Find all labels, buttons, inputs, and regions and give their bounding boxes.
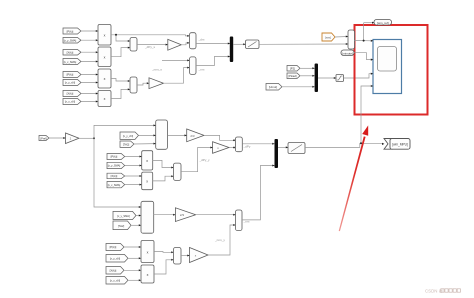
from tag [Pload] [287,73,300,79]
product block B2 [98,91,111,107]
wire tagB2 to prodB1 [81,82,98,84]
white mux [348,30,355,49]
rate transition ZOH1 [246,40,260,49]
wire muxMB to bar1 [196,57,230,66]
from tag [x_y_SMA] Bm1 [113,211,136,219]
goto tag [minute] [341,50,354,56]
wire M2 to tallMux1 [134,143,156,145]
wire gainT4 up to muxN in2 [208,225,236,255]
wire riser into scope port4 from long bottom wire [361,86,372,143]
from tag [x_x_xN] B4 [63,99,81,105]
svg-text:x: x [146,159,148,163]
input arrows cluster B [96,59,190,102]
wire Bm1 to tallMux2 [136,215,141,217]
wire tagA1 to prodA1 [81,30,98,32]
junction dot [363,40,365,42]
from tag [x_y_SMA] A2 [63,38,81,44]
from tag [X(k)] M5 [107,173,125,179]
svg-text:2/3: 2/3 [190,134,195,138]
mux bar 2 (black) [315,64,318,93]
gain triangle T4 [190,248,209,263]
wire bar3 to ZOH2 [278,146,288,148]
tall mux 2 [141,201,154,233]
goto tag [wm_ref] [374,20,392,26]
svg-text:[wm]: [wm] [325,35,331,39]
svg-text:x: x [104,55,106,59]
wire ZOH1 to white mux (long) [259,43,348,45]
svg-text:x: x [104,97,106,101]
svg-text:[x_y_xN]: [x_y_xN] [123,134,133,138]
svg-text:[minute]: [minute] [342,51,353,55]
wire sumB to gainB [137,83,149,85]
wire tallMux2 to gainT3 [154,214,176,216]
wire bar1 to ZOH1 [233,43,245,45]
goto tag [wm_MPU] [384,139,392,150]
svg-text:x: x [147,250,149,254]
bottom mux N [236,210,243,231]
from tag [X(k)] B3 [63,91,81,97]
svg-text:_nnn_y: _nnn_y [214,238,225,242]
product block A1 [98,25,111,46]
wire tagB3 to prodB2 [81,93,98,95]
scope block (blue) [373,40,402,94]
product block M1 [142,151,153,170]
from tag [P(k)] A1 [63,28,81,34]
svg-text:x: x [147,273,149,277]
wire prodM2 to sumM [153,176,174,181]
gain triangle A [168,39,182,50]
wire prodB6 to sumB2 [154,260,174,274]
wires tags to products Bt [124,246,141,248]
wire white mux to scope port1 with branch to wm_ref [355,40,372,42]
svg-text:[wm_ref]: [wm_ref] [377,21,389,25]
mux bar 1 (black) [230,37,233,63]
wire riser down to tallMux2 input1 [94,138,141,207]
from tag [x_x_SMA] A4 [63,59,81,65]
tall mux 1 [156,120,168,149]
wire riser up to tallMux1 input1 [94,125,156,138]
from tag [Pref] [39,136,49,141]
sum block A [130,38,137,52]
svg-text:[X(k)]: [X(k)] [67,51,74,55]
svg-text:[X(k)]: [X(k)] [110,269,117,273]
gain triangle T1 (2/3) [187,129,204,142]
wire sumB2 to gainT4 [181,255,190,257]
gain triangle B [149,78,164,89]
svg-text:[x_y_SMA]: [x_y_SMA] [64,39,77,43]
sum block M [174,163,182,180]
wire sumM up to gainT2 [181,148,213,172]
wire Bm2 to tallMux2 [131,224,141,226]
small mux D [235,137,242,152]
wire gainT1 to small mux D [204,135,234,140]
svg-text:[P(k)]: [P(k)] [67,73,74,77]
svg-text:[TH2]: [TH2] [118,224,125,228]
wire tagB1 to prodB1 [81,74,98,76]
wire prodB2 out to sumB [111,89,130,98]
wire sumA to gainA [137,44,168,46]
from tag [TH2] M2 [120,141,134,147]
wire muxMA to bar1 [196,43,230,45]
wires tags to products M [125,156,142,158]
from tag [P(k)] M3 [107,154,125,160]
svg-text:[x_y_xN]: [x_y_xN] [65,81,75,85]
svg-text:[X(k)]: [X(k)] [111,174,118,178]
wire gainB to muxMB [164,68,190,84]
wire stub to muxMB in1 [162,59,190,61]
wire Pload to bar2 [300,75,315,77]
svg-text:[x_y_SMA]: [x_y_SMA] [117,214,130,218]
sum block B2 [174,248,182,265]
wire prodB1 out to sumB [111,79,130,82]
svg-text:_nnn_s: _nnn_s [151,68,162,72]
svg-text:_dPy: _dPy [243,145,251,149]
svg-text:[x_x_xN]: [x_x_xN] [65,100,75,104]
svg-text:[P(k)]: [P(k)] [110,245,117,249]
wire Umot to bar2 [282,86,315,88]
svg-text:[x_x_SMA]: [x_x_SMA] [108,183,121,187]
product block A2 [98,47,111,67]
svg-text:[x_y_SMA]: [x_y_SMA] [108,164,121,168]
from tag [TH2] Bm2 [113,221,131,230]
svg-text:_nm: _nm [198,68,205,72]
from tag [x_y_xN] B2 [63,80,81,86]
wire prodM1 to sumM [153,160,174,167]
input arrows cluster A [96,30,246,63]
from tag [wm] (orange) [322,33,335,41]
wire gainT2 to small mux D [229,147,235,149]
svg-text:[wm_MPU]: [wm_MPU] [392,142,408,146]
svg-text:[x_x_xN]: [x_x_xN] [110,279,120,283]
product block B6 [141,265,154,283]
mux bar 3 (black) [275,139,279,168]
svg-text:x: x [104,77,106,81]
mux MB [190,57,197,75]
svg-text:[Pload]: [Pload] [288,74,296,78]
wire muxN up to bar3 [242,166,275,220]
wire gainA to muxMA [181,43,189,45]
from tag [P2] [287,66,300,72]
gain triangle T3 (2/3) [175,208,195,222]
red arrow body [339,136,366,231]
wire tagB4 to prodB2 [81,101,98,103]
wire gainT3 to bottom mux N [196,214,236,216]
wire prodB5 to sumB2 [154,251,174,254]
wire gainP to junction [79,137,94,139]
wire prodA2 out to sumA [111,48,130,57]
wire prodA1 out to sumA and muxMA [111,35,130,41]
mux MA [190,33,197,49]
product block B5 [141,241,154,263]
saturation block [336,75,344,82]
svg-text:[P(k)]: [P(k)] [111,155,118,159]
red highlight box [355,25,428,115]
svg-text:[P2]: [P2] [290,67,295,71]
input arrows middle cluster [63,124,288,185]
sum block B [130,77,137,93]
input arrows bottom cluster [139,206,236,281]
product block M2 [142,172,153,190]
svg-text:_dPy_y: _dPy_y [199,158,211,162]
wire bar2 to saturation [318,77,336,79]
svg-text:_dm: _dm [198,38,205,42]
from tag [X(k)] A3 [63,50,81,56]
product block B1 [98,69,111,88]
svg-text:2/3: 2/3 [180,213,185,217]
watermark CSDN [425,289,460,294]
wire tagA3 to prodA2 [81,51,98,53]
wire M1 to tallMux1 [139,134,156,136]
svg-text:[P(k)]: [P(k)] [67,29,74,33]
from tag [P(k)] B1 [63,72,81,78]
svg-text:[TH2]: [TH2] [123,143,130,147]
rate transition ZOH2 [288,143,305,154]
input arrows mid-right [312,36,348,88]
from tag [P(k)] Bt1 [106,244,124,251]
from tag [x_y_SMA] M4 [107,162,125,168]
red arrow head [362,125,368,135]
scope input port arrows [371,40,373,42]
long wire ZOH2 to wm_MPU with junction [305,143,383,147]
from tag [Umot] [266,84,282,91]
wire orange tag to white mux [335,36,348,39]
svg-text:[X(k)]: [X(k)] [67,92,74,96]
scope screen [378,47,397,72]
from tag [x_y_xN] M1 [120,132,139,139]
wire Pref to gainP [49,137,66,139]
gain triangle P [66,133,80,144]
svg-text:[Umot]: [Umot] [269,85,277,89]
wire tagA2 to prodA1 [81,39,98,41]
wire muxD to bar3 [242,143,274,145]
from tag [x_x_SMA] M6 [107,182,125,188]
gain triangle T2 [213,142,229,154]
from tag [x_x_xN] Bt4 [106,277,128,285]
svg-text:_dPy_s: _dPy_s [144,45,156,49]
wire tallMux1 to gainT1 [167,134,186,136]
svg-text:[x_y_xN]: [x_y_xN] [110,257,120,261]
svg-text:[Pref]: [Pref] [40,136,46,140]
junction dot [93,137,95,139]
wire minute to scope port2 [354,53,372,60]
svg-text:x: x [104,34,106,38]
from tag [x_y_xN] Bt2 [106,255,128,263]
wire saturation to scope port3 [344,74,372,78]
wire P2 to bar2 [300,67,315,69]
wire tagA4 to prodA2 [81,61,98,63]
svg-text:x: x [146,180,148,184]
from tag [X(k)] Bt3 [106,267,124,275]
svg-text:[x_x_SMA]: [x_x_SMA] [64,60,77,64]
